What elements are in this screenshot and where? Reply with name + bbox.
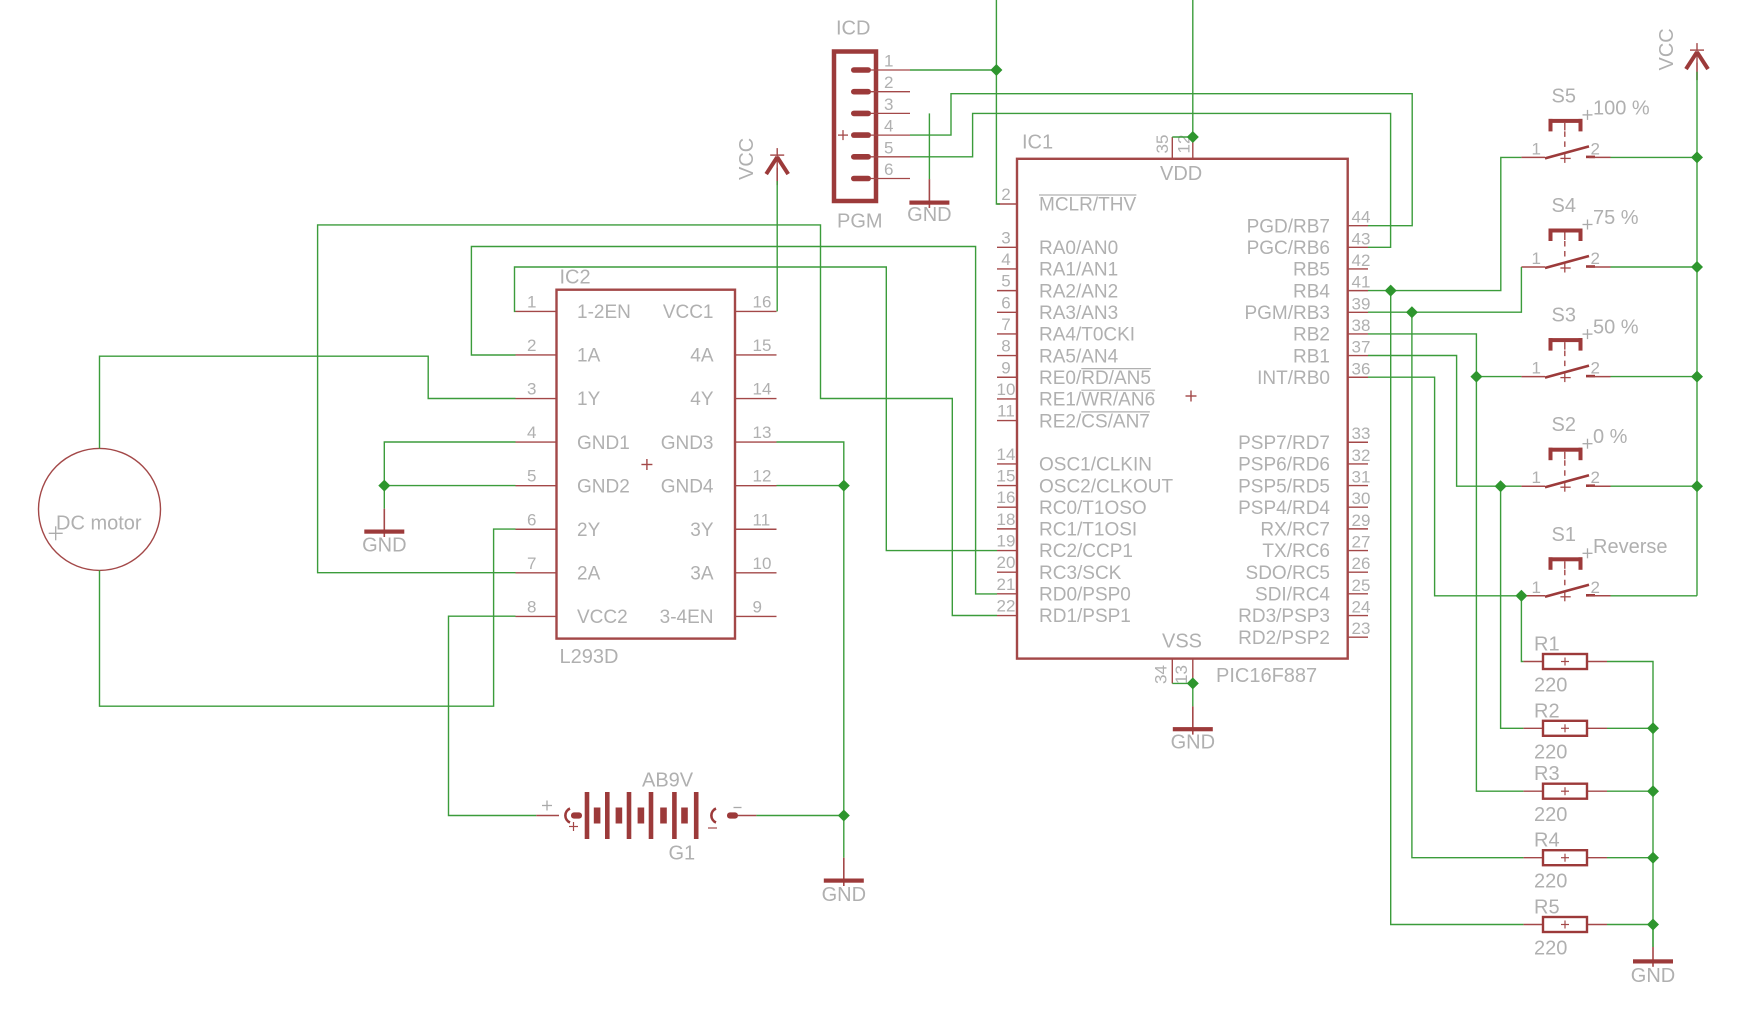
svg-text:2: 2 [1001,185,1010,204]
ICD pin 6 [851,176,871,182]
svg-text:29: 29 [1352,511,1371,530]
svg-text:PGC/RB6: PGC/RB6 [1247,238,1330,259]
svg-text:AB9V: AB9V [642,770,694,792]
svg-text:100 %: 100 % [1593,97,1650,119]
IC1 pin 36 (INT/RB0) [1348,376,1368,378]
wire branch RB1 to R2 [1501,486,1524,728]
resistor R5 220 [1523,897,1607,960]
IC1 pin 5 (RA2/AN2) [997,290,1017,292]
IC1 pin 26 (SDO/RC5) [1348,571,1368,573]
svg-text:1-2EN: 1-2EN [577,302,631,323]
wire net motor- to IC2 2Y [100,529,516,706]
svg-text:RB1: RB1 [1293,346,1330,367]
svg-text:DC motor: DC motor [56,513,142,535]
IC1 origin cross [1186,395,1197,397]
ICD pin 2 [851,89,871,95]
wire net GND3/GND4 to battery - [777,442,844,816]
IC1 pin 42 (RB5) [1348,268,1368,270]
svg-text:RA4/T0CKI: RA4/T0CKI [1039,325,1135,346]
IC1 pin 44 (PGD/RB7) [1348,225,1368,227]
S1 contact blade [1545,585,1589,597]
svg-text:RE0/RD/AN5: RE0/RD/AN5 [1039,368,1151,389]
svg-text:RA1/AN1: RA1/AN1 [1039,260,1118,281]
S4 pin 2 stub [1589,266,1611,268]
R5 body [1543,917,1587,932]
svg-text:25: 25 [1352,576,1371,595]
svg-text:ICD: ICD [836,18,870,40]
IC2 pin 4 (GND1) [516,441,557,443]
wire branch RB2 to R3 [1476,377,1523,792]
svg-text:RD1/PSP1: RD1/PSP1 [1039,606,1131,627]
IC2 L293D motor driver [516,267,777,669]
svg-text:RC0/T1OSO: RC0/T1OSO [1039,498,1147,519]
IC1 pin 12 (VDD) [1192,137,1194,159]
IC2 pin 10 (3A) [735,572,777,574]
resistor R2 220 [1523,700,1607,763]
IC1 pin 38 (RB2) [1348,333,1368,335]
svg-text:14: 14 [997,445,1016,464]
svg-text:16: 16 [753,292,772,311]
junction RB2/S3/R3 [1470,371,1482,383]
IC1 pin 25 (SDI/RC4) [1348,593,1368,595]
svg-text:S5: S5 [1552,85,1576,107]
R1 body [1543,654,1587,669]
S1 pin 2 stub [1589,595,1611,597]
svg-text:24: 24 [1352,598,1371,617]
svg-text:R1: R1 [1534,634,1560,656]
IC1 pin 41 (RB4) [1348,290,1368,292]
R5 pin stubs [1523,924,1543,926]
svg-text:7: 7 [1001,315,1010,334]
wire net RB2: IC1 pin38 to S3 pin1 [1368,334,1521,377]
wire to ground [1652,925,1654,948]
resistor R1 220 [1523,634,1607,697]
svg-text:TX/RC6: TX/RC6 [1262,541,1330,562]
svg-text:RC2/CCP1: RC2/CCP1 [1039,541,1133,562]
svg-text:RB5: RB5 [1293,260,1330,281]
svg-text:34: 34 [1152,665,1171,684]
svg-text:3: 3 [1001,228,1010,247]
S3 actuator bracket [1549,338,1583,342]
svg-text:RC1/T1OSI: RC1/T1OSI [1039,520,1137,541]
svg-text:PIC16F887: PIC16F887 [1216,665,1317,687]
svg-text:RA0/AN0: RA0/AN0 [1039,238,1118,259]
junction RB3/R4 [1406,306,1418,318]
IC1 pin 18 (RC1/T1OSI) [997,528,1017,530]
svg-text:RB4: RB4 [1293,281,1330,302]
S4 actuator bracket [1549,229,1583,233]
svg-text:VCC2: VCC2 [577,607,628,628]
junction IC2 GND [378,480,390,492]
svg-text:75 %: 75 % [1593,207,1639,229]
svg-text:10: 10 [997,380,1016,399]
svg-text:7: 7 [527,554,536,573]
svg-text:2: 2 [1591,359,1600,378]
svg-text:1: 1 [1532,468,1541,487]
svg-text:1: 1 [884,52,893,71]
svg-text:5: 5 [884,138,893,157]
wire to ground [928,113,930,179]
battery G1 AB9V [536,770,756,865]
IC1 pin 15 (OSC2/CLKOUT) [997,485,1017,487]
svg-text:OSC2/CLKOUT: OSC2/CLKOUT [1039,476,1173,497]
R2 pin stubs [1523,727,1543,729]
S5 actuator bracket [1549,119,1583,123]
svg-text:4: 4 [527,423,536,442]
svg-text:1: 1 [1532,578,1541,597]
svg-text:IC1: IC1 [1022,132,1053,154]
svg-text:1Y: 1Y [577,389,601,410]
junction VCC rail [1691,151,1703,163]
IC1 pin 21 (RD0/PSP0) [997,593,1017,595]
switch S5 (100 %) [1521,85,1650,162]
IC2 pin 6 (2Y) [516,528,557,530]
svg-text:42: 42 [1352,251,1371,270]
IC2 pin 9 (3-4EN) [735,615,777,617]
svg-text:22: 22 [997,597,1016,616]
svg-text:5: 5 [1001,272,1010,291]
wire branch RB3 to R4 [1412,312,1524,858]
wire net 1A-RD0/PSP0: IC2 pin2 to IC1 pin21 [471,247,997,594]
svg-text:14: 14 [753,380,772,399]
IC1 pin 23 (RD2/PSP2) [1348,636,1368,638]
S5 contact blade [1545,146,1589,158]
ground [822,858,866,906]
svg-text:8: 8 [1001,337,1010,356]
wire net MCLR: ICD pin1 to IC1 pin2, off-page top [910,69,996,71]
svg-text:2: 2 [1591,249,1600,268]
S5 pin 1 stub [1521,156,1545,158]
S4 contact blade [1545,256,1589,268]
svg-text:RD3/PSP3: RD3/PSP3 [1238,606,1330,627]
svg-text:2: 2 [1591,139,1600,158]
S2 actuator bracket [1549,448,1583,452]
junction GND rail [1647,852,1659,864]
svg-text:2: 2 [527,336,536,355]
ICD pin 3 [851,111,871,117]
svg-text:4Y: 4Y [690,389,714,410]
svg-text:PGM: PGM [837,211,883,233]
svg-text:1: 1 [1532,249,1541,268]
wire net motor+ to IC2 1Y [100,356,516,448]
svg-text:VCC: VCC [1656,28,1678,70]
junction GND rail [1647,785,1659,797]
svg-text:Reverse: Reverse [1593,536,1667,558]
svg-text:1: 1 [527,292,536,311]
svg-text:220: 220 [1534,675,1567,697]
IC1 pin 24 (RD3/PSP3) [1348,615,1368,617]
IC2 pin 8 (VCC2) [516,615,557,617]
wire net PGD: ICD pin4 to IC1 pin44 [910,94,1412,226]
svg-text:GND3: GND3 [661,433,714,454]
svg-text:37: 37 [1352,338,1371,357]
switch S2 (0 %) [1521,414,1627,492]
svg-text:2: 2 [884,73,893,92]
IC1 pin 4 (RA1/AN1) [997,268,1017,270]
ground [1631,947,1675,987]
S3 pin 2 stub [1589,376,1611,378]
svg-text:44: 44 [1352,208,1371,227]
IC1 pin 30 (PSP4/RD4) [1348,506,1368,508]
IC1 pin 31 (PSP5/RD5) [1348,485,1368,487]
wire to ground [383,486,385,509]
svg-text:GND: GND [1631,965,1675,987]
svg-text:GND1: GND1 [577,433,630,454]
svg-text:35: 35 [1153,135,1172,154]
svg-text:13: 13 [753,423,772,442]
wire net PGC: ICD pin5 to IC1 pin43 [910,113,1391,247]
IC1 pin 2 (MCLR/THV) [997,203,1017,205]
switch S3 (50 %) [1521,305,1638,383]
S1 pin 1 stub [1521,595,1545,597]
svg-text:G1: G1 [669,843,696,865]
svg-text:41: 41 [1352,273,1371,292]
IC1 pin 32 (PSP6/RD6) [1348,463,1368,465]
svg-text:18: 18 [997,510,1016,529]
svg-text:6: 6 [1001,293,1010,312]
wire net VCC2 to battery + [449,616,537,815]
svg-text:39: 39 [1352,294,1371,313]
wire net VCC to IC2 VCC1 [776,181,778,311]
svg-text:6: 6 [884,160,893,179]
svg-text:OSC1/CLKIN: OSC1/CLKIN [1039,455,1152,476]
wire R5 right to GND rail [1607,924,1653,926]
IC1 pin 9 (RE0/RD/AN5) [997,376,1017,378]
IC2 pin 7 (2A) [516,572,557,574]
svg-text:11: 11 [997,402,1015,421]
IC1 pin 37 (RB1) [1348,355,1368,357]
svg-text:4: 4 [884,117,893,136]
IC1 pin 6 (RA3/AN3) [997,311,1017,313]
svg-text:220: 220 [1534,871,1567,893]
svg-text:9: 9 [753,597,762,616]
svg-text:2: 2 [1591,468,1600,487]
svg-text:PGM/RB3: PGM/RB3 [1244,303,1330,324]
power VCC (above IC2) [736,138,788,185]
svg-text:36: 36 [1352,359,1371,378]
ICD pin 5 [851,154,871,160]
svg-text:20: 20 [997,553,1016,572]
resistor R3 220 [1523,763,1607,826]
svg-text:RD2/PSP2: RD2/PSP2 [1238,628,1330,649]
wire net 2A-RD1/PSP1: IC2 pin7 to IC1 pin22 [318,225,997,616]
svg-text:VCC: VCC [736,138,758,180]
wire net RB0: IC1 pin36 to S1 pin1 [1368,377,1521,596]
junction GND rail [1647,919,1659,931]
wire S5 pin2 to VCC rail [1611,156,1698,158]
svg-text:4A: 4A [690,346,714,367]
svg-text:2A: 2A [577,564,601,585]
svg-text:S2: S2 [1552,414,1576,436]
svg-text:1A: 1A [577,346,601,367]
IC2 pin 1 (1-2EN) [516,310,557,312]
wire resistor output rail to GND [1607,662,1653,948]
S2 pin 2 stub [1589,485,1611,487]
svg-text:31: 31 [1352,468,1371,487]
svg-text:RA2/AN2: RA2/AN2 [1039,281,1118,302]
motor M1 DC motor [39,448,161,570]
junction RB4/R5 [1385,285,1397,297]
IC2 pin 14 (4Y) [735,398,777,400]
svg-text:PSP6/RD6: PSP6/RD6 [1238,455,1330,476]
svg-text:MCLR/THV: MCLR/THV [1039,195,1136,216]
svg-text:10: 10 [753,554,772,573]
svg-text:21: 21 [997,575,1016,594]
svg-text:1: 1 [1532,359,1541,378]
svg-text:PSP5/RD5: PSP5/RD5 [1238,476,1330,497]
wire S4 pin2 to VCC rail [1611,266,1698,268]
svg-text:VCC1: VCC1 [663,302,714,323]
ground [1171,706,1215,753]
IC1 pin 13 (VSS) [1192,659,1194,684]
svg-text:R2: R2 [1534,700,1560,722]
IC2 pin 2 (1A) [516,354,557,356]
wire S3 pin2 to VCC rail [1611,376,1698,378]
wire R3 right to GND rail [1607,790,1653,792]
wire branch RB4 to R5 [1391,291,1524,925]
S4 pin 1 stub [1521,266,1545,268]
svg-text:26: 26 [1352,554,1371,573]
svg-text:8: 8 [527,597,536,616]
svg-text:1: 1 [1532,139,1541,158]
wire R4 right to GND rail [1607,857,1653,859]
svg-text:33: 33 [1352,424,1371,443]
junction VCC rail [1691,261,1703,273]
IC2 pin 13 (GND3) [735,441,777,443]
ground [362,509,406,557]
R2 body [1543,721,1587,736]
wire IC1 VSS pins join [1172,682,1193,684]
svg-text:32: 32 [1352,446,1371,465]
wire to ground [843,816,845,858]
IC1 pin 22 (RD1/PSP1) [997,615,1017,617]
power VCC (top right) [1656,28,1708,80]
svg-text:GND: GND [1171,732,1215,754]
svg-text:PSP4/RD4: PSP4/RD4 [1238,498,1330,519]
svg-text:RB2: RB2 [1293,325,1330,346]
junction VCC rail [1691,480,1703,492]
svg-text:38: 38 [1352,316,1371,335]
svg-text:INT/RB0: INT/RB0 [1257,368,1330,389]
svg-text:3: 3 [527,380,536,399]
wire net VDD: off-page top to IC1 pins 35/12 [1192,0,1194,137]
S5 pin 2 stub [1589,156,1611,158]
svg-text:220: 220 [1534,741,1567,763]
junction GND4 [838,480,850,492]
svg-text:2Y: 2Y [577,520,601,541]
svg-text:3: 3 [884,95,893,114]
R1 pin stubs [1523,661,1543,663]
svg-text:2: 2 [1591,578,1600,597]
svg-text:RC3/SCK: RC3/SCK [1039,563,1122,584]
IC1 pin 19 (RC2/CCP1) [997,550,1017,552]
connector ICD / PGM [834,18,910,233]
svg-text:50 %: 50 % [1593,317,1639,339]
S2 contact blade [1545,475,1589,487]
svg-text:PGD/RB7: PGD/RB7 [1247,216,1330,237]
wire net RB3: IC1 pin39 to S4 pin1 [1368,267,1521,312]
IC1 pin 29 (RX/RC7) [1348,528,1368,530]
resistor R4 220 [1523,830,1607,893]
svg-text:RD0/PSP0: RD0/PSP0 [1039,585,1131,606]
IC1 pin 35 (VDD) [1171,137,1173,159]
svg-text:RA5/AN4: RA5/AN4 [1039,346,1119,367]
IC1 pin 8 (RA5/AN4) [997,355,1017,357]
IC2 pin 3 (1Y) [516,398,557,400]
svg-text:15: 15 [753,336,772,355]
IC1 pin 20 (RC3/SCK) [997,571,1017,573]
svg-text:S3: S3 [1552,305,1576,327]
IC2 pin 12 (GND4) [735,485,777,487]
svg-text:27: 27 [1352,533,1371,552]
IC1 pin 27 (TX/RC6) [1348,550,1368,552]
switch S4 (75 %) [1521,195,1638,273]
wire VCC rail (switch pin2 column) [1696,72,1698,596]
IC1 pin 34 (VSS) [1171,659,1173,684]
ICD origin cross [838,134,848,136]
wire S1 pin2 to VCC rail [1611,595,1698,597]
IC1 pin 39 (PGM/RB3) [1348,311,1368,313]
wire net RB4: IC1 pin41 to S5 pin1 [1368,157,1521,290]
svg-text:30: 30 [1352,489,1371,508]
svg-text:3-4EN: 3-4EN [660,607,714,628]
IC1 PIC16F887 microcontroller [997,132,1371,688]
svg-text:GND2: GND2 [577,476,630,497]
svg-text:6: 6 [527,510,536,529]
svg-text:IC2: IC2 [560,267,591,289]
svg-text:GND: GND [907,204,951,226]
svg-text:RX/RC7: RX/RC7 [1260,520,1330,541]
IC1 pin 14 (OSC1/CLKIN) [997,463,1017,465]
IC1 pin 3 (RA0/AN0) [997,246,1017,248]
svg-text:SDI/RC4: SDI/RC4 [1255,585,1330,606]
svg-text:RE2/CS/AN7: RE2/CS/AN7 [1039,411,1150,432]
IC1 pin 16 (RC0/T1OSO) [997,506,1017,508]
svg-text:15: 15 [997,467,1016,486]
svg-text:12: 12 [753,467,772,486]
svg-text:0 %: 0 % [1593,426,1628,448]
svg-text:GND: GND [822,884,866,906]
junction VCC rail [1691,371,1703,383]
svg-text:L293D: L293D [560,646,619,668]
svg-text:RA3/AN3: RA3/AN3 [1039,303,1118,324]
svg-text:13: 13 [1172,665,1191,684]
junction MCLR net [990,64,1002,76]
svg-text:220: 220 [1534,804,1567,826]
ICD pin 1 [851,67,871,73]
R3 pin stubs [1523,790,1543,792]
svg-text:3A: 3A [690,564,714,585]
svg-text:220: 220 [1534,938,1567,960]
wire S2 pin2 to VCC rail [1611,485,1698,487]
IC1 pin 43 (PGC/RB6) [1348,246,1368,248]
svg-text:23: 23 [1352,619,1371,638]
wire to ground [1192,683,1194,706]
wire R2 right to GND rail [1607,727,1653,729]
svg-text:11: 11 [753,510,771,529]
svg-text:5: 5 [527,467,536,486]
svg-text:SDO/RC5: SDO/RC5 [1246,563,1330,584]
svg-text:19: 19 [997,532,1016,551]
junction VDD [1187,131,1199,143]
R4 body [1543,850,1587,865]
svg-text:R5: R5 [1534,897,1560,919]
IC1 pin 33 (PSP7/RD7) [1348,441,1368,443]
wire net IC2 GND1/GND2 [384,442,515,486]
IC2 pin 15 (4A) [735,354,777,356]
svg-text:S4: S4 [1552,195,1576,217]
IC1 pin 11 (RE2/CS/AN7) [997,420,1017,422]
